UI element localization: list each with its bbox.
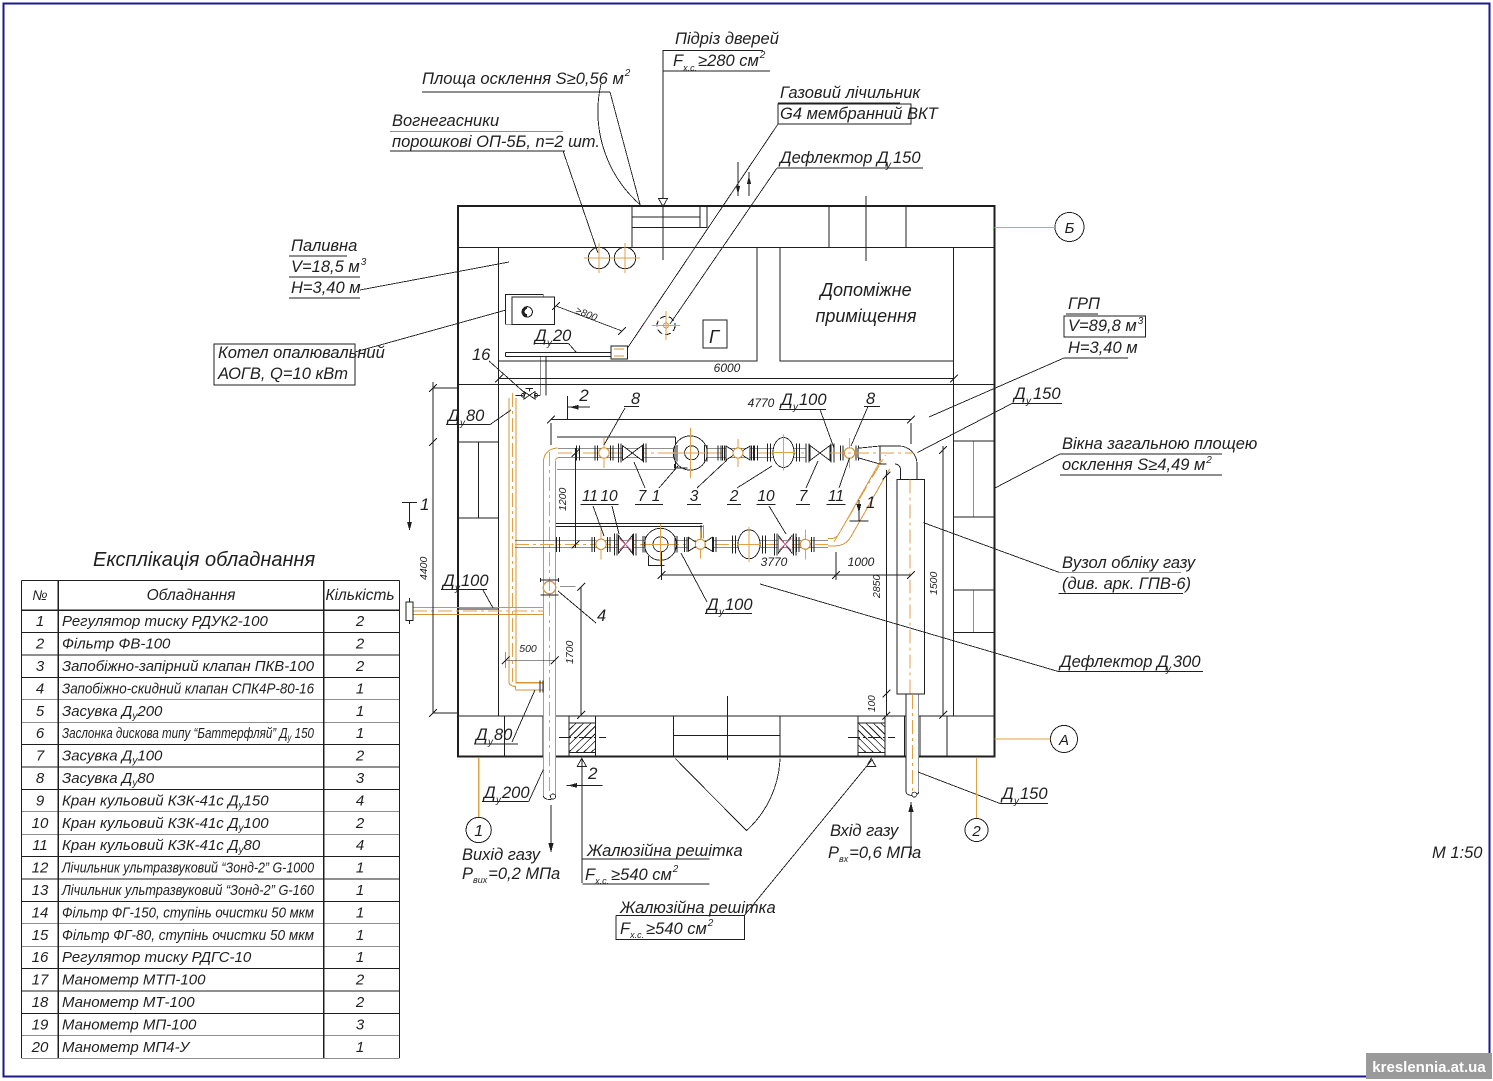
svg-text:Лічильник ультразвуковий “Зонд: Лічильник ультразвуковий “Зонд-2” G-1000 [61,860,314,877]
svg-text:≥540 см: ≥540 см [611,866,672,884]
svg-text:приміщення: приміщення [815,306,916,326]
svg-text:1: 1 [356,860,364,877]
svg-text:3770: 3770 [761,555,788,569]
svg-text:Обладнання: Обладнання [147,587,236,604]
svg-text:100: 100 [867,695,878,712]
svg-text:Підріз дверей: Підріз дверей [675,30,779,48]
svg-text:Експлікація обладнання: Експлікація обладнання [93,549,316,571]
svg-text:2: 2 [355,815,365,832]
svg-text:Кран кульовий КЗК-41с Ду100: Кран кульовий КЗК-41с Ду100 [62,815,269,834]
svg-text:вих: вих [473,875,488,885]
svg-text:3: 3 [1138,316,1144,327]
svg-text:Жалюзійна решітка: Жалюзійна решітка [619,899,776,917]
svg-text:осклення S≥4,49 м: осклення S≥4,49 м [1062,456,1205,474]
svg-text:(див. арк. ГПВ-6): (див. арк. ГПВ-6) [1062,575,1191,593]
svg-text:5: 5 [36,703,45,720]
svg-text:Запобіжно-запірний клапан ПКВ-: Запобіжно-запірний клапан ПКВ-100 [62,658,315,675]
svg-text:≥280 см: ≥280 см [698,52,759,70]
svg-text:1: 1 [356,703,364,720]
svg-text:100: 100 [725,596,753,614]
svg-text:Газовий лічильник: Газовий лічильник [780,84,921,102]
svg-text:200: 200 [501,784,530,802]
svg-text:х.с.: х.с. [594,876,609,886]
svg-text:80: 80 [494,726,513,744]
svg-text:1: 1 [356,949,364,966]
svg-text:11: 11 [32,837,48,854]
svg-text:8: 8 [36,770,45,787]
svg-text:Д: Д [705,596,719,614]
svg-text:3: 3 [356,770,365,787]
svg-text:2850: 2850 [871,574,883,599]
svg-text:1: 1 [474,823,483,840]
svg-text:у: у [1165,664,1172,675]
svg-text:≥540 см: ≥540 см [646,920,707,938]
svg-text:Засувка Ду80: Засувка Ду80 [62,770,155,789]
svg-text:у: у [495,795,502,806]
svg-text:2: 2 [971,823,981,840]
svg-text:3: 3 [361,257,367,268]
svg-text:1: 1 [420,495,429,514]
svg-text:Н=3,40 м: Н=3,40 м [291,279,361,297]
svg-text:14: 14 [32,904,49,921]
svg-text:Паливна: Паливна [291,237,357,255]
svg-text:Фільтр ФВ-100: Фільтр ФВ-100 [62,636,171,653]
svg-text:у: у [1025,396,1032,407]
svg-text:А: А [1058,732,1069,749]
svg-text:1200: 1200 [557,487,569,511]
svg-text:у: у [487,737,494,748]
svg-text:Кількість: Кількість [325,587,394,604]
svg-text:4: 4 [356,837,364,854]
svg-text:Д: Д [779,391,793,409]
svg-text:2: 2 [587,764,598,783]
svg-text:7: 7 [799,488,809,505]
svg-text:3: 3 [36,658,45,675]
svg-text:1500: 1500 [928,571,940,595]
svg-text:7: 7 [638,488,648,505]
svg-text:2: 2 [355,994,365,1011]
svg-text:3: 3 [356,1016,365,1033]
svg-text:100: 100 [461,572,489,590]
svg-text:V=18,5 м: V=18,5 м [291,258,360,276]
svg-text:Манометр МТ-100: Манометр МТ-100 [62,994,195,1011]
svg-text:15: 15 [32,927,49,944]
svg-text:Допоміжне: Допоміжне [818,280,911,300]
svg-text:10: 10 [600,488,618,505]
svg-text:10: 10 [32,815,49,832]
svg-text:Засувка Ду100: Засувка Ду100 [62,748,163,767]
svg-text:=0,6 МПа: =0,6 МПа [849,844,921,862]
svg-text:2: 2 [729,488,739,505]
svg-text:Лічильник ультразвуковий “Зонд: Лічильник ультразвуковий “Зонд-2” G-160 [61,882,314,899]
svg-text:Фільтр ФГ-80, ступінь очистки: Фільтр ФГ-80, ступінь очистки 50 мкм [62,927,314,944]
svg-text:х.с.: х.с. [629,930,644,940]
svg-text:G4 мембранний ВКТ: G4 мембранний ВКТ [780,105,940,123]
svg-text:10: 10 [757,488,775,505]
svg-text:у: у [718,607,725,618]
svg-text:16: 16 [472,346,491,364]
svg-text:V=89,8 м: V=89,8 м [1068,317,1137,335]
svg-text:16: 16 [32,949,49,966]
svg-text:у: у [885,160,892,171]
svg-text:Н=3,40 м: Н=3,40 м [1068,339,1138,357]
svg-text:Котел опалювальний: Котел опалювальний [218,344,385,362]
svg-text:20: 20 [552,327,572,345]
svg-text:Д: Д [1012,385,1026,403]
svg-text:4770: 4770 [748,396,775,410]
svg-text:3: 3 [690,488,699,505]
svg-text:у: у [1013,796,1020,807]
svg-text:20: 20 [31,1039,49,1056]
svg-text:Вхід газу: Вхід газу [830,822,900,840]
svg-text:4400: 4400 [418,556,430,580]
svg-text:ГРП: ГРП [1068,295,1100,313]
svg-text:Б: Б [1065,220,1075,237]
svg-text:Манометр МТП-100: Манометр МТП-100 [62,972,206,989]
svg-text:у: у [454,583,461,594]
svg-text:1: 1 [36,613,44,630]
svg-text:2: 2 [355,748,365,765]
svg-text:300: 300 [1173,653,1201,671]
svg-text:Д: Д [441,572,455,590]
svg-text:Кран кульовий КЗК-41с Ду80: Кран кульовий КЗК-41с Ду80 [62,837,261,856]
svg-text:у: у [459,418,466,429]
svg-text:1: 1 [356,882,364,899]
svg-text:=0,2 МПа: =0,2 МПа [488,865,560,883]
svg-text:х.с.: х.с. [682,63,697,73]
svg-text:17: 17 [32,972,49,989]
svg-text:kreslennia.at.ua: kreslennia.at.ua [1372,1059,1486,1076]
svg-text:Д: Д [474,726,488,744]
svg-text:2: 2 [672,864,679,875]
svg-text:Манометр МП4-У: Манометр МП4-У [62,1039,191,1056]
svg-text:500: 500 [519,643,537,655]
svg-text:М 1:50: М 1:50 [1432,844,1483,862]
svg-text:12: 12 [32,860,49,877]
svg-text:9: 9 [36,792,45,809]
svg-text:Д: Д [533,327,547,345]
svg-text:Вікна загальною площею: Вікна загальною площею [1062,435,1257,453]
svg-text:вх: вх [839,854,849,864]
svg-text:Дефлектор Д: Дефлектор Д [778,149,889,167]
svg-text:1: 1 [356,725,364,742]
svg-text:1: 1 [356,1039,364,1056]
svg-text:Д: Д [446,407,460,425]
svg-text:100: 100 [799,391,827,409]
svg-text:Засувка Ду200: Засувка Ду200 [62,703,163,722]
svg-text:1: 1 [356,927,364,944]
svg-text:Кран кульовий КЗК-41с Ду150: Кран кульовий КЗК-41с Ду150 [62,792,269,811]
svg-text:11: 11 [582,488,598,505]
svg-text:2: 2 [624,68,631,79]
svg-text:150: 150 [893,149,921,167]
svg-text:1: 1 [356,904,364,921]
svg-text:2: 2 [35,636,45,653]
svg-text:Вузол обліку газу: Вузол обліку газу [1062,554,1197,572]
svg-text:2: 2 [578,386,589,405]
svg-text:1700: 1700 [564,640,576,664]
svg-text:Дефлектор Д: Дефлектор Д [1058,653,1169,671]
svg-text:Регулятор тиску РДУК2-100: Регулятор тиску РДУК2-100 [62,613,268,630]
svg-text:150: 150 [1020,785,1048,803]
svg-text:2: 2 [355,972,365,989]
svg-text:18: 18 [32,994,49,1011]
svg-text:2: 2 [355,636,365,653]
svg-text:19: 19 [32,1016,49,1033]
svg-text:2: 2 [707,918,714,929]
svg-text:Р: Р [462,865,473,883]
svg-text:у: у [792,402,799,413]
svg-text:7: 7 [36,748,45,765]
svg-text:150: 150 [1033,385,1061,403]
svg-text:2: 2 [355,658,365,675]
svg-text:Фільтр ФГ-150, ступінь очистки: Фільтр ФГ-150, ступінь очистки 50 мкм [62,904,314,921]
svg-text:1000: 1000 [848,555,875,569]
svg-text:Д: Д [1000,785,1014,803]
svg-text:АОГВ, Q=10 кВт: АОГВ, Q=10 кВт [217,365,348,383]
svg-text:4: 4 [597,607,606,625]
svg-text:Площа осклення S≥0,56 м: Площа осклення S≥0,56 м [422,70,624,88]
svg-text:8: 8 [631,390,641,408]
svg-text:Жалюзійна решітка: Жалюзійна решітка [586,842,743,860]
svg-text:6000: 6000 [714,361,741,375]
svg-text:2: 2 [1205,455,1212,466]
svg-text:Вихід газу: Вихід газу [462,846,542,864]
svg-text:6: 6 [36,725,45,742]
svg-text:11: 11 [828,488,844,505]
svg-text:2: 2 [355,613,365,630]
svg-text:1: 1 [866,493,875,512]
svg-text:Манометр МП-100: Манометр МП-100 [62,1016,197,1033]
svg-text:Д: Д [482,784,496,802]
svg-text:4: 4 [356,792,364,809]
svg-text:Заслонка дискова типу “Баттерф: Заслонка дискова типу “Баттерфляй” Ду 15… [62,725,315,744]
svg-text:8: 8 [866,390,876,408]
svg-text:1: 1 [652,488,661,505]
svg-text:4: 4 [36,680,44,697]
svg-text:2: 2 [759,50,766,61]
svg-text:Регулятор тиску РДГС-10: Регулятор тиску РДГС-10 [62,949,252,966]
svg-text:Р: Р [828,844,839,862]
svg-text:№: № [32,587,47,603]
svg-text:порошкові ОП-5Б, n=2 шт.: порошкові ОП-5Б, n=2 шт. [392,133,600,151]
svg-text:80: 80 [466,407,485,425]
svg-text:Запобіжно-скидний клапан СПК4Р: Запобіжно-скидний клапан СПК4Р-80-16 [62,680,315,697]
svg-text:Вогнегасники: Вогнегасники [392,112,499,130]
svg-text:1: 1 [356,680,364,697]
svg-text:13: 13 [32,882,49,899]
